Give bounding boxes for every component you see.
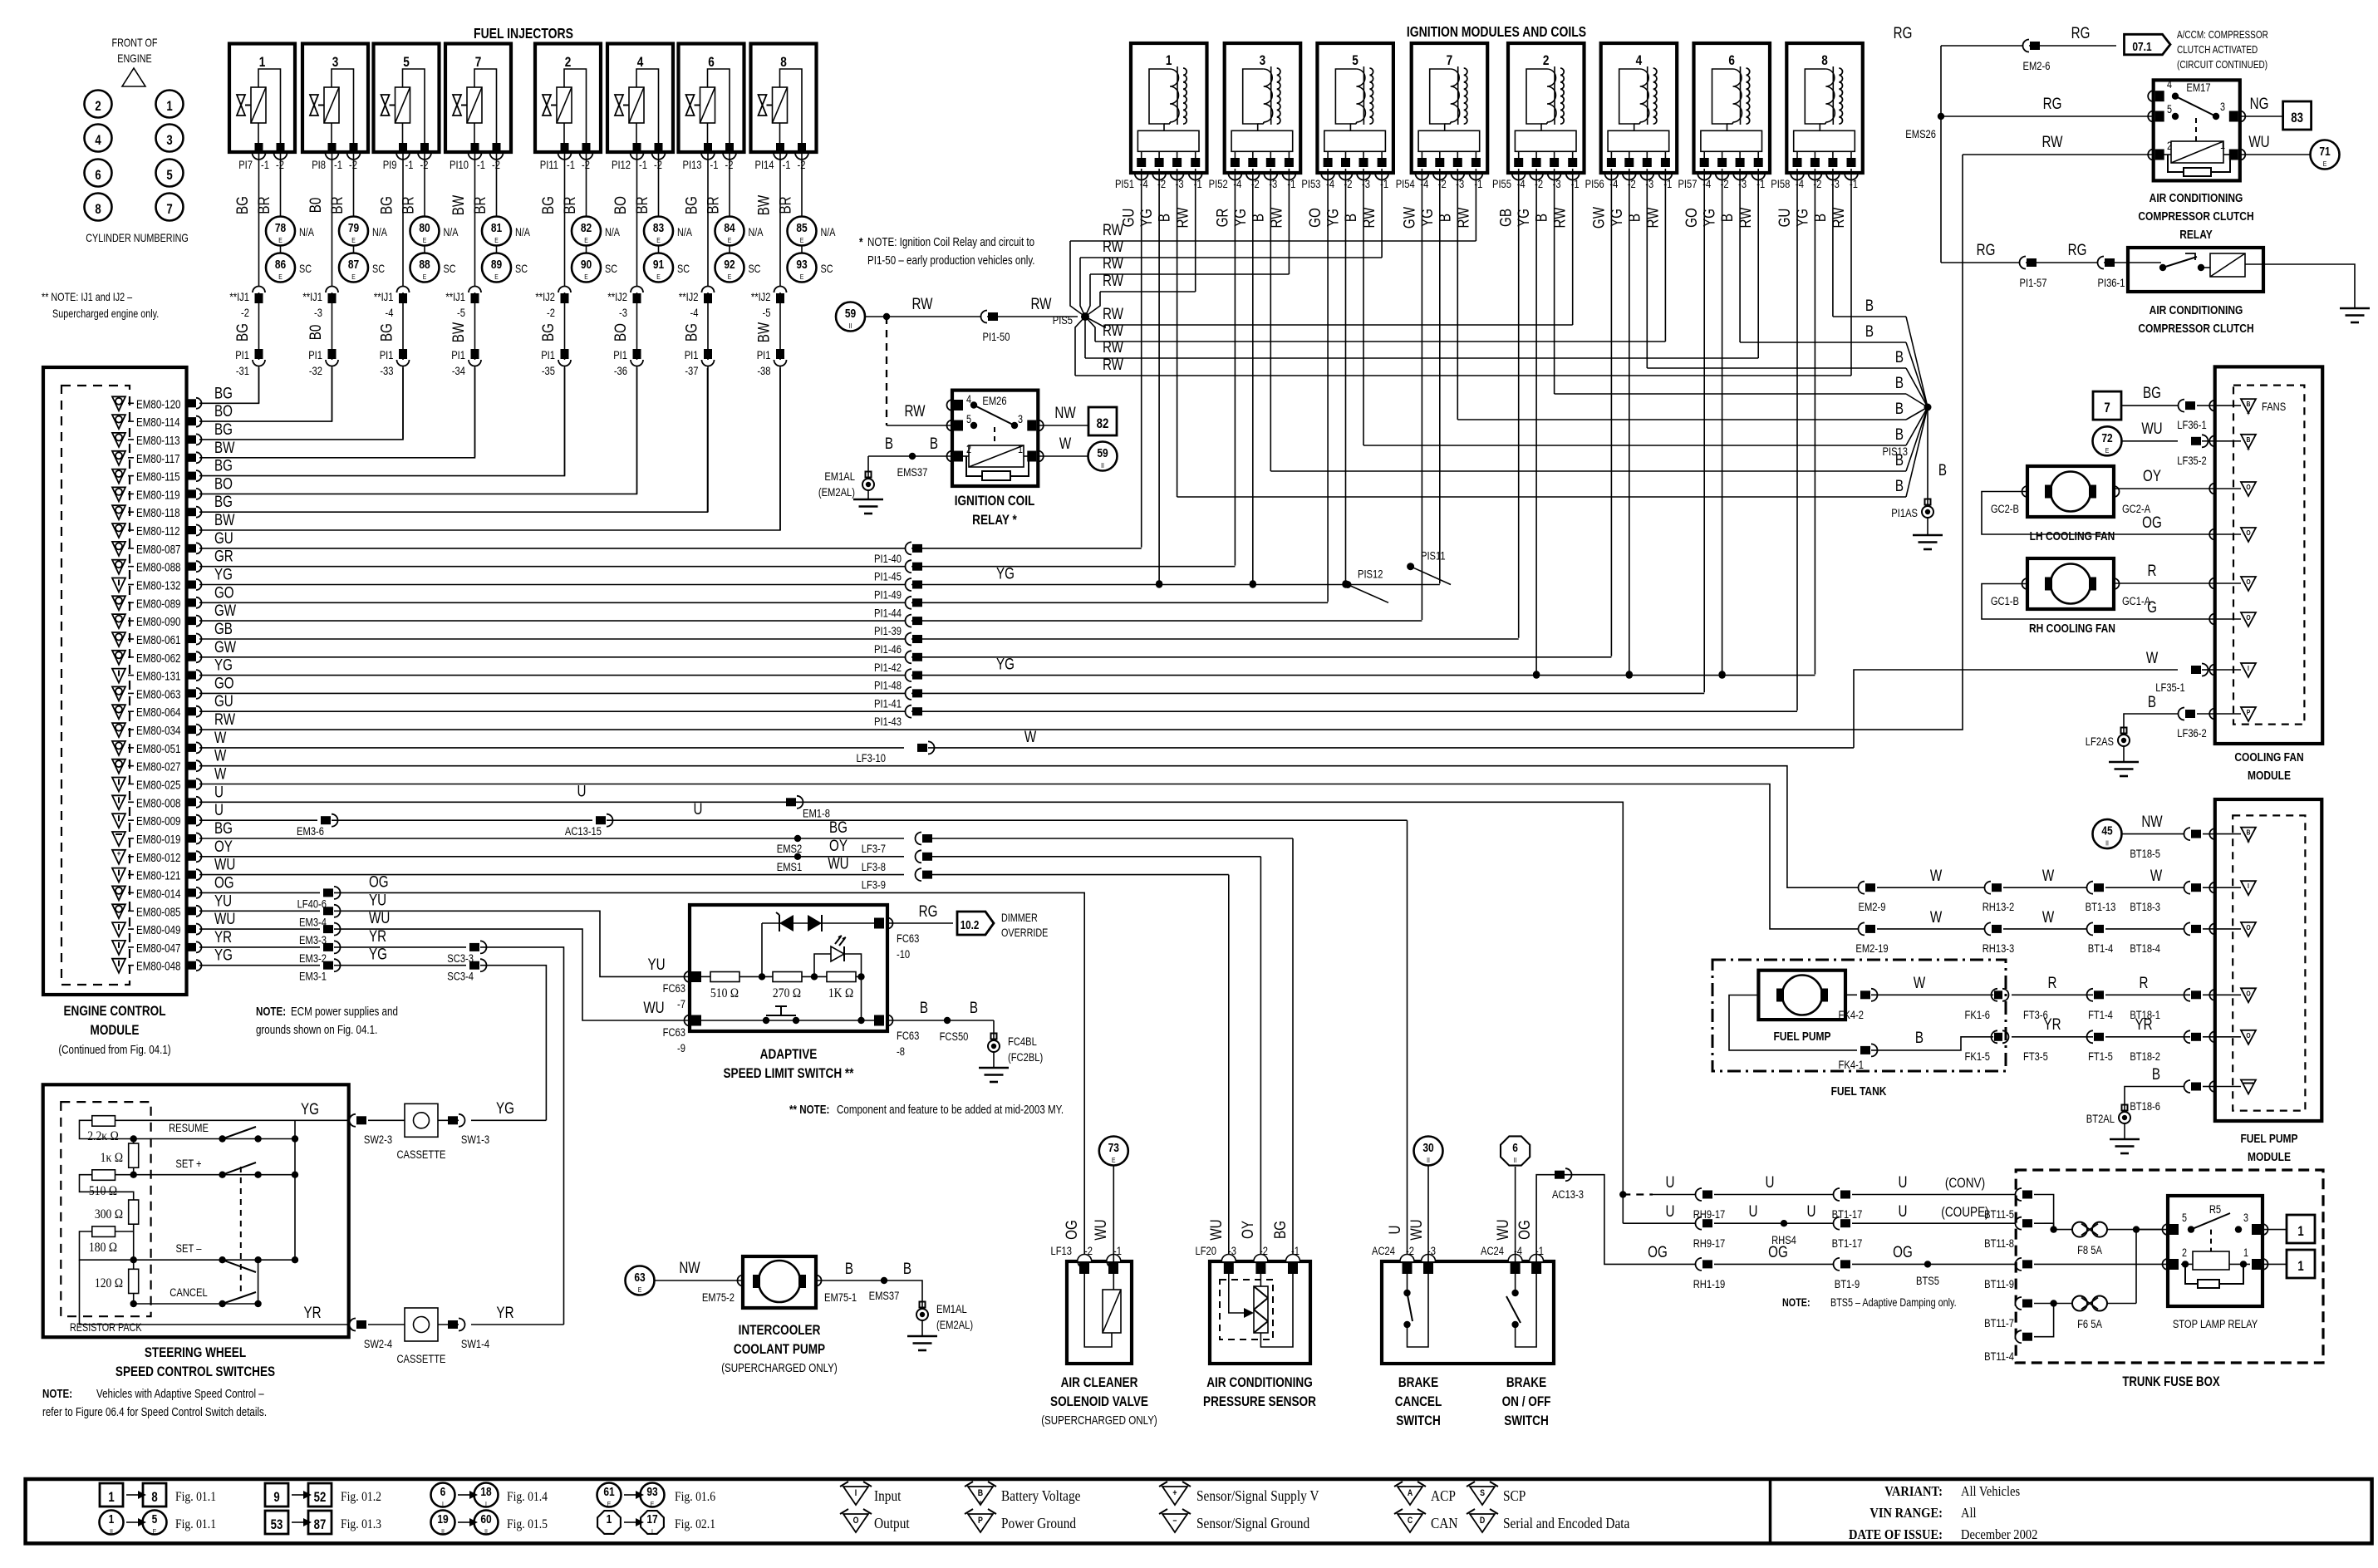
ECM pin EM80-085 bbox=[112, 904, 202, 918]
svg-text:FC63: FC63 bbox=[897, 1030, 919, 1042]
fuel pump module inner dashed bbox=[2233, 815, 2305, 1110]
wire OY GC2-A to module bbox=[2114, 488, 2215, 489]
ground FC4BL (FC2BL) bbox=[979, 1020, 1043, 1082]
svg-text:-2: -2 bbox=[1260, 1245, 1268, 1257]
legend fig 01.2 bbox=[265, 1483, 381, 1507]
ECM pin EM80-008 bbox=[112, 795, 202, 809]
svg-text:PI1-50 – early production vehi: PI1-50 – early production vehicles only. bbox=[867, 253, 1035, 268]
svg-text:WU: WU bbox=[828, 854, 848, 872]
wire module 6 pin -4 trigger bbox=[1703, 169, 1705, 692]
resistor 120 bbox=[129, 1269, 139, 1293]
svg-text:FC63: FC63 bbox=[663, 982, 685, 995]
svg-text:RESISTOR PACK: RESISTOR PACK bbox=[70, 1321, 142, 1334]
cooling fan module pin bbox=[2209, 484, 2215, 494]
svg-text:-2: -2 bbox=[1084, 1245, 1093, 1257]
wire U EM1-8 to trunk vertical bbox=[797, 802, 1623, 1223]
svg-text:EM80-034: EM80-034 bbox=[136, 724, 181, 738]
svg-text:P: P bbox=[2247, 708, 2251, 716]
svg-text:GW: GW bbox=[214, 637, 237, 656]
wire RW row bbox=[1105, 324, 1573, 326]
svg-text:53: 53 bbox=[271, 1517, 283, 1533]
ground PI1AS bbox=[1891, 499, 1943, 550]
svg-text:YR: YR bbox=[2135, 1015, 2152, 1033]
svg-text:U: U bbox=[214, 801, 224, 819]
circuit ref box 1 lower bbox=[2287, 1250, 2315, 1278]
wire RW from EM80-034 to relay pin2 bbox=[1963, 154, 2154, 155]
svg-text:EM1-8: EM1-8 bbox=[803, 807, 830, 819]
svg-text:OG: OG bbox=[1893, 1242, 1913, 1261]
svg-text:G: G bbox=[2147, 597, 2157, 616]
title steering wheel speed control switches bbox=[115, 1345, 275, 1380]
svg-text:N/A: N/A bbox=[515, 226, 531, 238]
svg-text:Fig. 01.5: Fig. 01.5 bbox=[507, 1517, 548, 1531]
wire RG EMS26 to relay pin5 bbox=[1941, 116, 2154, 117]
circuit ref 63 E bbox=[626, 1266, 655, 1295]
wire YG to SC3-4 column bbox=[471, 1119, 546, 1121]
svg-text:YG: YG bbox=[1137, 209, 1155, 227]
ECM pin EM80-062 bbox=[112, 651, 202, 665]
wire module 2 pin -1 RW bbox=[1572, 169, 1574, 325]
resistor 300 bbox=[129, 1200, 139, 1224]
svg-text:-31: -31 bbox=[236, 365, 249, 377]
ECM pin EM80-061 bbox=[112, 632, 202, 646]
svg-text:RESUME: RESUME bbox=[169, 1122, 209, 1134]
node FCS50 bbox=[944, 1017, 951, 1024]
svg-text:BG: BG bbox=[829, 818, 848, 836]
wire BT11-4 to BT11-7 junction bbox=[2034, 1304, 2054, 1337]
wire YU EM80-085 to adaptive speed limit switch bbox=[199, 910, 320, 912]
svg-text:6: 6 bbox=[95, 168, 101, 184]
wire B row to PIS13 bbox=[1740, 342, 1906, 343]
svg-text:LF36-1: LF36-1 bbox=[2177, 419, 2206, 431]
ECM pin EM80-132 bbox=[112, 578, 202, 592]
wire EM80-115 to PI1-35 bbox=[199, 368, 565, 476]
svg-text:YG: YG bbox=[1607, 209, 1625, 227]
svg-text:OY: OY bbox=[2143, 466, 2161, 484]
wire module 7 pin -2 YG bbox=[1439, 169, 1441, 583]
wire W EM80-051 to cooling fan module bbox=[199, 747, 904, 749]
svg-text:FK4-1: FK4-1 bbox=[1839, 1059, 1864, 1071]
svg-text:WU: WU bbox=[369, 908, 390, 927]
wire B PIS13 to PI1AS ground bbox=[1927, 407, 1928, 506]
wire YR FT3-5 to FT1-5 bbox=[2012, 1036, 2093, 1038]
svg-text:–: – bbox=[1173, 1516, 1177, 1526]
wire B pump to EM1AL ground bbox=[816, 1280, 922, 1309]
svg-text:-2: -2 bbox=[241, 307, 249, 319]
svg-text:SW1-3: SW1-3 bbox=[461, 1133, 489, 1146]
svg-text:O: O bbox=[2246, 1031, 2250, 1040]
svg-text:PI1-40: PI1-40 bbox=[874, 553, 902, 565]
svg-text:-1: -1 bbox=[783, 159, 791, 171]
ECM pin EM80-049 bbox=[112, 922, 202, 936]
svg-text:WU: WU bbox=[1407, 1219, 1425, 1240]
resistor 510 bbox=[92, 1170, 115, 1181]
connector PI1-39 bbox=[906, 615, 911, 627]
svg-text:ECM power supplies and: ECM power supplies and bbox=[291, 1005, 398, 1019]
svg-text:I: I bbox=[651, 1527, 653, 1536]
svg-text:WU: WU bbox=[1206, 1219, 1225, 1240]
connector RH13-3 bbox=[1985, 922, 1992, 935]
svg-text:PI55: PI55 bbox=[1492, 178, 1511, 190]
svg-text:EM2-6: EM2-6 bbox=[2023, 60, 2051, 72]
svg-text:EM80-064: EM80-064 bbox=[136, 705, 181, 720]
svg-text:CANCEL: CANCEL bbox=[170, 1286, 207, 1299]
svg-text:8: 8 bbox=[95, 202, 101, 218]
svg-text:STEERING WHEEL: STEERING WHEEL bbox=[145, 1345, 246, 1361]
svg-text:AC13-3: AC13-3 bbox=[1552, 1188, 1584, 1201]
cooling fan module pin bbox=[2209, 614, 2215, 625]
svg-text:82: 82 bbox=[581, 221, 592, 235]
wire EM80-117 to PI1-34 bbox=[199, 368, 475, 458]
svg-text:90: 90 bbox=[581, 258, 592, 272]
cylinder numbering diagram bbox=[85, 37, 189, 244]
svg-text:SWITCH: SWITCH bbox=[1396, 1413, 1441, 1429]
connector PI1-31 bbox=[235, 349, 265, 377]
wire RG PI1-57 row to clutch bbox=[1941, 262, 2128, 263]
connector IJ1-3 bbox=[302, 287, 338, 320]
connector PI1-37 bbox=[685, 349, 715, 377]
title intercooler coolant pump bbox=[721, 1323, 838, 1375]
svg-text:U: U bbox=[1749, 1202, 1758, 1220]
wire module 1 pin -1 RW bbox=[1195, 169, 1196, 292]
relay stop lamp R5 bbox=[2163, 1196, 2268, 1306]
svg-text:PI1-49: PI1-49 bbox=[874, 588, 902, 601]
connector SW2-4 bbox=[350, 1319, 356, 1331]
connector PI1-36 bbox=[613, 349, 643, 377]
title cooling fan module bbox=[2234, 750, 2303, 783]
svg-text:BRAKE: BRAKE bbox=[1398, 1375, 1438, 1391]
ECM pin EM80-119 bbox=[112, 487, 202, 501]
svg-text:-38: -38 bbox=[757, 365, 770, 377]
svg-text:Sensor/Signal Supply V: Sensor/Signal Supply V bbox=[1196, 1487, 1319, 1504]
svg-text:E: E bbox=[656, 236, 661, 244]
svg-text:EMS26: EMS26 bbox=[1905, 128, 1936, 140]
wire clutch to ground bbox=[2263, 264, 2355, 308]
svg-text:II: II bbox=[110, 1527, 113, 1536]
svg-text:EM75-1: EM75-1 bbox=[824, 1291, 857, 1304]
svg-text:RG: RG bbox=[919, 902, 938, 920]
svg-text:-2: -2 bbox=[547, 307, 555, 319]
legend SCP symbol bbox=[1467, 1482, 1526, 1505]
svg-text:59: 59 bbox=[1097, 446, 1108, 460]
ECM pin EM80-047 bbox=[112, 941, 202, 955]
wire module 3 pin -2 YG bbox=[1252, 169, 1254, 583]
svg-text:PIS11: PIS11 bbox=[1421, 550, 1446, 563]
ground ref 91 E SC bbox=[644, 253, 690, 283]
svg-text:63: 63 bbox=[634, 1271, 646, 1285]
svg-text:GW: GW bbox=[1400, 206, 1418, 229]
svg-text:+: + bbox=[2247, 409, 2250, 417]
svg-text:B0: B0 bbox=[306, 198, 324, 214]
svg-text:MODULE: MODULE bbox=[2248, 769, 2291, 783]
svg-text:SC: SC bbox=[820, 263, 833, 275]
svg-text:W: W bbox=[214, 764, 227, 783]
svg-text:73: 73 bbox=[1108, 1141, 1120, 1155]
svg-text:2.2κ Ω: 2.2κ Ω bbox=[87, 1129, 119, 1143]
svg-text:PI10: PI10 bbox=[450, 159, 469, 171]
ignition module and coil 3 (PI52) bbox=[1209, 43, 1301, 190]
connector RH9-17 conv bbox=[1696, 1188, 1702, 1201]
svg-text:-37: -37 bbox=[685, 365, 698, 377]
ECM pin EM80-115 bbox=[112, 469, 202, 484]
ground EM1AL intercooler bbox=[907, 1302, 973, 1351]
wire EM80-121 WU to A/C pressure sensor bbox=[199, 874, 904, 876]
node BTS5 bbox=[1924, 1261, 1931, 1267]
svg-text:87: 87 bbox=[348, 258, 359, 272]
wire injector pin -2 down bbox=[280, 152, 282, 217]
svg-text:I: I bbox=[855, 1488, 857, 1498]
legend output symbol bbox=[840, 1509, 910, 1532]
connector FK4-1 bbox=[1860, 1046, 1870, 1054]
ground ref 93 E SC bbox=[788, 253, 833, 283]
svg-text:W: W bbox=[1930, 907, 1943, 926]
svg-text:-2: -2 bbox=[1406, 1245, 1414, 1257]
svg-text:GO: GO bbox=[214, 674, 234, 692]
note ECM power supplies bbox=[256, 1005, 398, 1037]
svg-text:EM80-063: EM80-063 bbox=[136, 687, 181, 701]
wire relay pin5 feed bbox=[2136, 1229, 2168, 1231]
wire EM80-063 trigger to module bbox=[199, 692, 1704, 694]
wire module 4 pin -1 RW bbox=[1664, 169, 1666, 342]
svg-text:E: E bbox=[278, 236, 283, 244]
svg-text:D: D bbox=[1480, 1516, 1485, 1526]
svg-text:BG: BG bbox=[682, 323, 700, 342]
svg-text:RG: RG bbox=[2043, 94, 2062, 112]
ground ref 84 E N/A bbox=[715, 217, 764, 246]
svg-text:ENGINE CONTROL: ENGINE CONTROL bbox=[63, 1004, 165, 1020]
wire RW elbows to PIS5 junction bbox=[1070, 241, 1085, 317]
svg-text:-10: -10 bbox=[897, 948, 910, 961]
wire EM80-120 to PI1-31 bbox=[199, 368, 259, 403]
svg-text:SW1-4: SW1-4 bbox=[461, 1338, 489, 1350]
connector LF35-1 bbox=[2191, 666, 2201, 674]
svg-text:-1: -1 bbox=[639, 159, 647, 171]
dashed mechanical link bbox=[240, 1167, 242, 1296]
svg-text:-1: -1 bbox=[405, 159, 414, 171]
svg-text:PI36-1: PI36-1 bbox=[2098, 277, 2125, 289]
svg-text:PI9: PI9 bbox=[383, 159, 397, 171]
svg-text:EM1AL: EM1AL bbox=[936, 1303, 967, 1315]
svg-text:2: 2 bbox=[1543, 53, 1550, 69]
svg-text:EM80-112: EM80-112 bbox=[136, 524, 180, 538]
svg-text:LF20: LF20 bbox=[1196, 1245, 1216, 1257]
resistor 1K bbox=[129, 1143, 139, 1167]
svg-text:RW: RW bbox=[1643, 207, 1662, 229]
svg-text:OY: OY bbox=[829, 836, 848, 854]
svg-text:RW: RW bbox=[1737, 207, 1755, 229]
legend serial data symbol bbox=[1467, 1509, 1630, 1532]
air cleaner solenoid internals bbox=[1084, 1274, 1121, 1347]
fuel pump module pin bbox=[2209, 882, 2214, 893]
svg-text:LF35-2: LF35-2 bbox=[2177, 455, 2206, 467]
svg-text:BW: BW bbox=[214, 510, 235, 528]
svg-text:AC24: AC24 bbox=[1372, 1245, 1395, 1257]
wire RW row bbox=[1100, 291, 1196, 292]
svg-text:SC: SC bbox=[299, 263, 312, 275]
svg-text:NOTE: Ignition Coil Relay and: NOTE: Ignition Coil Relay and circuit to bbox=[867, 235, 1034, 249]
svg-text:510 Ω: 510 Ω bbox=[710, 986, 739, 1000]
connector PI1-41 bbox=[906, 687, 911, 700]
svg-text:BT11-4: BT11-4 bbox=[1984, 1350, 2014, 1363]
svg-text:II: II bbox=[484, 1527, 488, 1536]
svg-text:Fig. 01.4: Fig. 01.4 bbox=[507, 1490, 548, 1504]
svg-text:N/A: N/A bbox=[299, 226, 315, 238]
svg-text:LH COOLING FAN: LH COOLING FAN bbox=[2030, 529, 2115, 543]
svg-text:E: E bbox=[2323, 160, 2327, 168]
svg-text:6: 6 bbox=[440, 1485, 446, 1499]
svg-text:3: 3 bbox=[166, 133, 172, 149]
svg-text:NOTE:: NOTE: bbox=[1782, 1296, 1811, 1309]
svg-text:EM80-062: EM80-062 bbox=[136, 651, 181, 666]
wire WU EM80-049 to adaptive speed limit switch bbox=[199, 928, 320, 930]
title brake cancel switch bbox=[1395, 1375, 1442, 1429]
svg-text:IGNITION MODULES AND COILS: IGNITION MODULES AND COILS bbox=[1407, 25, 1586, 41]
wire injector pin -1 down bbox=[258, 152, 260, 403]
wire WU 30 to brake cancel switch bbox=[1427, 1166, 1429, 1262]
wire injector pin -1 down bbox=[332, 152, 333, 421]
svg-text:RG: RG bbox=[1894, 23, 1913, 42]
svg-text:December 2002: December 2002 bbox=[1961, 1527, 2037, 1542]
connector BT1-17 conv bbox=[1834, 1188, 1840, 1201]
svg-text:GC1-B: GC1-B bbox=[1991, 595, 2019, 607]
circuit ref box 7 bbox=[2093, 391, 2121, 420]
legend input symbol bbox=[840, 1482, 902, 1505]
svg-text:EM80-113: EM80-113 bbox=[136, 434, 180, 448]
svg-text:EM80-014: EM80-014 bbox=[136, 887, 181, 901]
wire right rail bbox=[294, 1120, 296, 1260]
svg-text:O: O bbox=[2246, 923, 2250, 931]
svg-text:RW: RW bbox=[214, 710, 236, 728]
svg-text:1: 1 bbox=[259, 55, 266, 71]
brake switch pins bbox=[1372, 1245, 1544, 1274]
svg-text:1: 1 bbox=[2297, 1259, 2303, 1275]
svg-text:ADAPTIVE: ADAPTIVE bbox=[760, 1047, 818, 1063]
title fuel pump module bbox=[2240, 1132, 2297, 1164]
svg-text:RW: RW bbox=[1103, 355, 1124, 373]
svg-text:93: 93 bbox=[646, 1485, 658, 1499]
svg-text:SCP: SCP bbox=[1503, 1487, 1526, 1504]
svg-text:BG: BG bbox=[214, 493, 233, 511]
wire RW row bbox=[1070, 240, 1476, 242]
resistor 2.2K bbox=[92, 1116, 115, 1127]
svg-text:OG: OG bbox=[2142, 513, 2162, 531]
svg-text:FANS: FANS bbox=[2262, 401, 2286, 413]
svg-text:10.2: 10.2 bbox=[961, 918, 980, 932]
svg-text:O: O bbox=[2246, 613, 2250, 622]
connector BT18-4 bbox=[2184, 922, 2191, 935]
svg-text:EM80-119: EM80-119 bbox=[136, 488, 180, 502]
svg-text:WU: WU bbox=[214, 909, 235, 927]
ignition module and coil 6 (PI57) bbox=[1678, 43, 1770, 190]
connector BT18-3 bbox=[2184, 882, 2191, 894]
wire BT11-7 through fuse F6 bbox=[2034, 1303, 2072, 1305]
svg-text:(CONV): (CONV) bbox=[1945, 1176, 1985, 1192]
svg-text:-4: -4 bbox=[690, 307, 699, 319]
svg-text:ON / OFF: ON / OFF bbox=[1502, 1394, 1551, 1410]
svg-text:-8: -8 bbox=[897, 1045, 905, 1058]
brake switches box bbox=[1382, 1261, 1554, 1364]
svg-text:O: O bbox=[2246, 578, 2250, 586]
svg-text:YR: YR bbox=[2043, 1015, 2061, 1033]
svg-text:OY: OY bbox=[214, 837, 233, 855]
connector BT18-1 R row bbox=[2184, 989, 2191, 1001]
wire module 5 pin -4 trigger bbox=[1327, 169, 1329, 602]
svg-text:Battery Voltage: Battery Voltage bbox=[1001, 1487, 1080, 1504]
svg-text:RG: RG bbox=[2071, 23, 2091, 42]
svg-text:GO: GO bbox=[1305, 208, 1324, 228]
wire SET+ row bbox=[134, 1174, 295, 1176]
svg-text:Sensor/Signal Ground: Sensor/Signal Ground bbox=[1196, 1515, 1310, 1531]
ECM pin EM80-089 bbox=[112, 596, 202, 610]
svg-text:17: 17 bbox=[646, 1512, 657, 1526]
svg-text:BO: BO bbox=[611, 196, 629, 214]
fuel pump module pin bbox=[2209, 828, 2214, 839]
svg-text:EM2-9: EM2-9 bbox=[1859, 901, 1886, 913]
wire EM80-112 to PI1-38 bbox=[199, 368, 780, 530]
legend battery voltage symbol bbox=[965, 1482, 1080, 1506]
ECM pin EM80-090 bbox=[112, 614, 202, 628]
svg-text:SC: SC bbox=[677, 263, 690, 275]
svg-text:INTERCOOLER: INTERCOOLER bbox=[739, 1323, 821, 1339]
svg-text:W: W bbox=[1930, 866, 1943, 884]
svg-text:120 Ω: 120 Ω bbox=[95, 1276, 123, 1290]
svg-text:BT1-9: BT1-9 bbox=[1835, 1278, 1860, 1290]
svg-text:-9: -9 bbox=[677, 1042, 685, 1054]
wire EM26 pin1 W to 59-II bbox=[1038, 455, 1088, 457]
svg-text:O: O bbox=[2246, 528, 2250, 537]
flag 07.1 circuit continued bbox=[2125, 34, 2171, 55]
svg-text:EM17: EM17 bbox=[2186, 81, 2210, 94]
svg-text:EM80-114: EM80-114 bbox=[136, 415, 180, 430]
wire relay pin1 to output 1 bbox=[2263, 1263, 2287, 1265]
svg-text:EM80-025: EM80-025 bbox=[136, 778, 181, 792]
svg-text:-36: -36 bbox=[614, 365, 627, 377]
svg-text:Fig. 01.3: Fig. 01.3 bbox=[341, 1517, 381, 1531]
svg-text:E: E bbox=[638, 1285, 642, 1294]
svg-text:U: U bbox=[1385, 1226, 1403, 1235]
A/C compressor clutch bbox=[2128, 248, 2263, 292]
svg-text:BG: BG bbox=[538, 196, 557, 214]
svg-text:PI1AS: PI1AS bbox=[1891, 507, 1918, 519]
svg-text:RW: RW bbox=[1267, 207, 1285, 229]
ground ref 82 E N/A bbox=[572, 217, 621, 246]
connector LF3-7 bbox=[916, 833, 922, 845]
svg-text:(EM2AL): (EM2AL) bbox=[936, 1319, 973, 1331]
svg-text:FC4BL: FC4BL bbox=[1008, 1035, 1037, 1048]
svg-text:FUEL PUMP: FUEL PUMP bbox=[2240, 1132, 2297, 1146]
svg-text:30: 30 bbox=[1422, 1141, 1433, 1155]
ground A/C clutch bbox=[2340, 307, 2370, 310]
fuel injector 5 (PI9) bbox=[374, 44, 440, 172]
svg-text:YR: YR bbox=[214, 927, 232, 946]
svg-text:EM80-087: EM80-087 bbox=[136, 543, 181, 557]
connector EM3-6 bbox=[321, 816, 331, 824]
svg-text:+: + bbox=[1172, 1488, 1177, 1498]
connector LF3-8 bbox=[915, 850, 921, 863]
adaptive switch pins and labels bbox=[663, 918, 920, 1059]
wire module 6 pin -2 YG bbox=[1722, 169, 1723, 675]
svg-text:NOTE:: NOTE: bbox=[256, 1005, 286, 1019]
legend fig 02.1 bbox=[597, 1511, 715, 1536]
wire OG GC2-B loop to module bbox=[1982, 492, 2215, 535]
svg-text:BW: BW bbox=[449, 194, 467, 215]
connector IJ1-2 bbox=[229, 287, 265, 320]
svg-text:EMS37: EMS37 bbox=[897, 466, 928, 479]
svg-text:EMS1: EMS1 bbox=[777, 861, 802, 873]
svg-text:RW: RW bbox=[1550, 207, 1569, 229]
wire NW 45 to BT18-5 bbox=[2121, 833, 2190, 835]
wire module 4 pin -4 trigger bbox=[1610, 169, 1612, 656]
